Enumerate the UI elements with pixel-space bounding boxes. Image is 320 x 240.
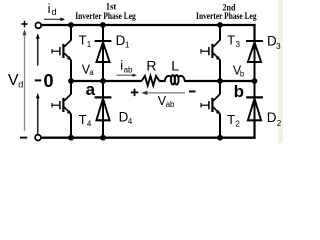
transistor T1 [52, 40, 71, 61]
svg-text:4: 4 [128, 117, 133, 126]
wire R-L lead [159, 80, 165, 82]
right edge cream strip [278, 0, 283, 143]
svg-text:d: d [18, 79, 23, 89]
svg-text:4: 4 [87, 119, 92, 128]
arrow Vd (gray, up) [24, 34, 26, 132]
svg-text:Inverter Phase Leg: Inverter Phase Leg [75, 11, 136, 22]
svg-text:ab: ab [124, 66, 133, 75]
svg-text:3: 3 [276, 42, 281, 51]
plus sign Vab [131, 89, 139, 96]
junction bottom rail leg2 [217, 135, 223, 141]
svg-text:2: 2 [235, 119, 240, 128]
svg-text:T: T [227, 112, 235, 127]
minus sign Vab [189, 91, 196, 93]
svg-text:a: a [89, 68, 94, 77]
svg-text:D: D [267, 110, 277, 125]
junction mid D3-D2 [252, 78, 258, 84]
transistor T4 [52, 94, 71, 115]
svg-text:T: T [227, 32, 235, 47]
svg-text:T: T [79, 112, 87, 127]
minus sign DC input [20, 137, 27, 139]
wire top rail [41, 24, 255, 26]
junction top rail D1 [100, 22, 106, 28]
wire middle branch a to b [71, 80, 142, 82]
terminal top-left circle [35, 23, 41, 29]
svg-text:3: 3 [236, 40, 241, 49]
wire bottom-right corner up to D2 [253, 120, 255, 139]
svg-text:ab: ab [166, 100, 175, 109]
junction node b [217, 78, 223, 84]
transistor T3 [201, 40, 220, 61]
wire leg1 upper stub [70, 25, 72, 40]
svg-text:R: R [146, 57, 156, 73]
wire bottom rail [41, 136, 256, 138]
svg-text:1: 1 [87, 40, 92, 49]
diode D3 [246, 41, 263, 62]
diode D1 [95, 41, 112, 62]
junction top rail leg1 [68, 22, 74, 28]
svg-text:d: d [52, 7, 57, 17]
wire leg2 middle [219, 60, 221, 95]
svg-text:L: L [171, 57, 179, 73]
arrow DC bus lower (up, below node 0) [37, 98, 39, 135]
wire D3-D2 branch [254, 42, 256, 120]
arrow Vab (gray, pointing left) [147, 92, 186, 94]
wire leg1 lower stub [70, 114, 72, 138]
junction top rail leg2 [217, 22, 223, 28]
wire leg2 upper stub [219, 25, 221, 40]
svg-text:2: 2 [277, 119, 282, 128]
wire L to node b and D2 branch [184, 80, 254, 82]
terminal bottom-left circle [35, 135, 41, 141]
svg-text:Inverter Phase Leg: Inverter Phase Leg [196, 11, 257, 22]
resistor R [142, 76, 160, 86]
svg-text:i: i [48, 1, 51, 16]
junction mid D1-D4 [100, 78, 106, 84]
svg-text:b: b [234, 82, 244, 101]
svg-text:T: T [79, 33, 87, 48]
junction bottom rail D4 [100, 135, 106, 141]
wire top-right corner down to D3 [253, 24, 255, 42]
transistor T2 [201, 94, 220, 115]
junction node a [68, 78, 74, 84]
svg-text:b: b [240, 70, 245, 79]
wire D1-D4 branch [102, 25, 104, 138]
arrow DC bus upper (up, above node 0) [37, 37, 39, 66]
diode D4 [95, 97, 112, 120]
diode D2 [246, 97, 263, 120]
junction bottom rail leg1 [68, 135, 74, 141]
wire leg2 lower stub [219, 114, 221, 138]
svg-text:1: 1 [125, 41, 130, 50]
wire leg1 middle (T1 emitter to T4 collector) [70, 60, 72, 95]
node 0 dash [35, 79, 41, 81]
svg-text:1st: 1st [106, 1, 117, 11]
svg-text:0: 0 [43, 71, 53, 91]
plus sign DC input [21, 21, 27, 27]
svg-text:a: a [86, 80, 96, 99]
inductor L [165, 75, 185, 85]
